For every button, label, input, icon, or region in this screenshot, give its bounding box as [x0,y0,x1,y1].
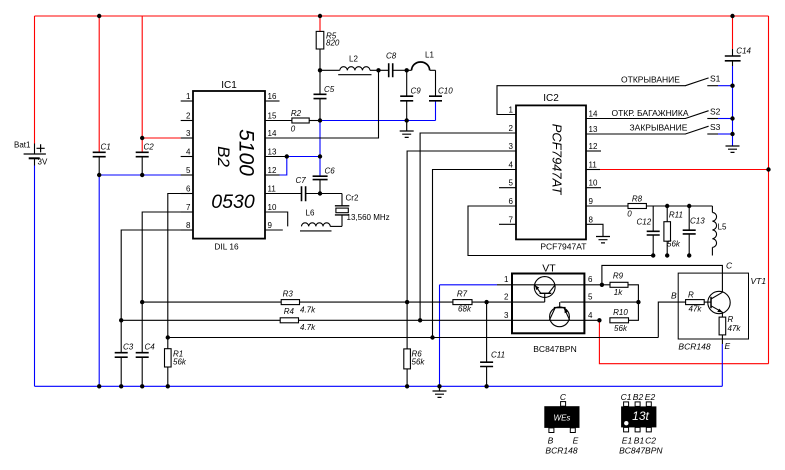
BCR148 outline box [678,273,748,339]
node R8-R11 top [665,204,669,208]
svg-text:C12: C12 [637,218,652,227]
IC2 pin13 row to S3 [586,133,686,135]
svg-text:L2: L2 [349,55,358,64]
battery Bat1 top plate [24,153,46,155]
switch S1 [621,74,721,86]
svg-text:5: 5 [588,293,593,302]
wire VT pin1/pin6 row [497,284,602,286]
capacitor C7 [302,186,306,201]
IC2 pin12 stub [586,150,601,152]
svg-text:1: 1 [509,106,514,115]
svg-text:PCF7947AT: PCF7947AT [550,124,565,196]
wire R1 to VT1 base row [168,337,659,339]
svg-text:WEs: WEs [554,414,571,423]
svg-text:Bat1: Bat1 [14,141,31,150]
svg-text:13: 13 [268,148,277,157]
svg-text:1k: 1k [614,288,623,297]
svg-text:BCR148: BCR148 [678,342,710,352]
svg-text:11: 11 [268,185,277,194]
wire VCC top rail (red) [35,15,769,17]
svg-text:B2: B2 [214,146,233,167]
node rail-C11 [484,384,488,388]
IC1 pin number labels left [186,92,191,230]
wire R5 top lead (red) [319,16,321,31]
svg-text:R3: R3 [283,289,294,298]
node C6-pin11 [318,191,322,195]
svg-text:68k: 68k [458,305,472,314]
wire VT1 emitter to rail (blue) [721,344,723,386]
IC1 pin13 stub [265,156,287,158]
svg-text:BCR148: BCR148 [545,446,577,456]
svg-text:Cr2: Cr2 [346,194,359,203]
IC2 pin11 stub [586,169,600,171]
node R5-VCC [318,14,322,18]
resistor R5 [316,31,340,70]
wire VT pin6 node to VT1 collector [602,265,723,292]
svg-text:L6: L6 [306,209,315,218]
svg-text:4: 4 [186,148,191,157]
svg-text:C9: C9 [411,87,422,96]
node pin13-pin12 [285,154,289,158]
switch S3 [630,122,721,134]
svg-text:10: 10 [589,179,598,188]
node pin13-C6col [318,154,322,158]
svg-text:15: 15 [268,112,277,121]
node R5-L2-C5 [318,68,322,72]
node R9-R10-pin5 [636,300,640,304]
svg-text:47k: 47k [689,305,703,314]
IC2 pin3 wire down to R3 row [407,151,516,302]
IC2 pin2 wire down to R4 row [420,133,516,320]
svg-text:B1: B1 [634,436,645,446]
capacitor C11 [480,302,493,386]
resistor R2 [291,109,320,134]
svg-text:0530: 0530 [211,191,255,213]
svg-text:2: 2 [504,293,509,302]
svg-text:C11: C11 [491,351,505,360]
IC1 pin number labels right [268,92,277,230]
capacitor C6 [313,176,328,193]
switch S2 [611,106,720,118]
node C13 bottom [687,253,691,257]
svg-text:S3: S3 [710,122,721,132]
IC2 pin4 wire down to base row [433,170,517,338]
IC2 pin5 stub [499,187,516,189]
svg-text:16: 16 [268,92,277,101]
IC1 pin7 wire down to C4 [142,212,193,353]
capacitor C8 [389,63,407,77]
IC2 pin1 wire to S1 row [497,86,686,115]
svg-text:IC2: IC2 [543,93,559,104]
IC1 pin8 wire down to C3 [121,230,193,353]
wire switch common column (blue) [732,66,734,146]
node S2 [730,116,734,120]
svg-text:8: 8 [186,221,191,230]
svg-text:56k: 56k [173,358,187,367]
node rail-gnd [437,384,441,388]
wire IC1 pin13 branch (blue) [287,156,320,158]
svg-text:C5: C5 [324,85,335,94]
node IC2pin2-R4 [418,318,422,322]
node C3-R4 [119,318,123,322]
svg-text:13: 13 [589,125,598,134]
svg-text:12: 12 [268,166,277,175]
wire C14 top lead (black) [732,49,734,56]
svg-text:R11: R11 [669,211,683,220]
svg-text:C2: C2 [645,436,656,446]
node C2-pin3 [140,136,144,140]
svg-text:C4: C4 [145,343,156,352]
inductor L2 [320,67,389,75]
node C8-L1-C9 [405,68,409,72]
svg-text:3V: 3V [38,158,48,167]
svg-text:R2: R2 [291,109,302,118]
svg-text:3: 3 [504,311,509,320]
capacitor C13 [683,206,696,256]
svg-text:C1: C1 [621,392,632,402]
svg-text:R9: R9 [613,272,624,281]
node C2-pin5 [140,173,144,177]
wire IC1 pin12 link (blue) [280,157,287,176]
svg-text:12: 12 [589,142,598,151]
capacitor C9 [400,70,413,120]
svg-text:10: 10 [268,203,277,212]
battery Bat1 plus sign [37,144,45,152]
resistor R emitter 47k [719,315,741,344]
svg-text:B: B [671,291,677,301]
svg-text:C2: C2 [144,143,155,152]
wire battery positive lead (black) [34,144,36,155]
wire C10 bottom riser (blue) [435,101,437,121]
node S1 [730,84,734,88]
wire VT1 base riser [658,302,685,337]
node C1-VCC [97,14,101,18]
svg-text:0: 0 [291,125,296,134]
IC2 pin number labels left [509,106,514,225]
svg-text:5: 5 [186,166,191,175]
svg-text:S2: S2 [710,106,721,116]
crystal Cr2 [335,194,349,227]
resistor R base 47k [686,291,711,314]
ground at bottom rail [433,386,447,397]
svg-text:ЗАКРЫВАНИЕ: ЗАКРЫВАНИЕ [630,123,688,133]
svg-text:47k: 47k [728,324,742,333]
svg-text:C1: C1 [101,143,111,152]
resistor R1 [165,349,187,387]
svg-text:2: 2 [186,112,191,121]
wire C6 top column (blue) [319,121,321,177]
node C13 top [687,204,691,208]
resistor R9 [602,272,639,302]
resistor R7 [453,290,472,314]
svg-text:13t: 13t [632,409,649,423]
node R3-R6 [405,300,409,304]
ground at IC2 pin8 [596,237,610,243]
svg-text:7: 7 [509,215,514,224]
wire VT pin1 ground column (blue) [439,285,441,387]
svg-text:BC847BPN: BC847BPN [619,446,663,456]
node L2-C8-pin14 [376,68,380,72]
svg-text:6: 6 [186,185,191,194]
svg-text:9: 9 [268,221,273,230]
capacitor C1 [93,152,106,175]
node R11 bottom [665,253,669,257]
wire ground bottom rail (blue) [35,385,723,387]
resistor R3 [281,289,316,314]
svg-text:6: 6 [509,197,514,206]
capacitor C12 [647,206,660,256]
svg-text:DIL 16: DIL 16 [214,241,239,251]
IC1 pin15 row to R2 [265,120,292,122]
IC2 pin14 row to S2 [586,118,686,120]
node R7-C11 [484,300,488,304]
node rail-R6 [405,384,409,388]
wire S1 right segment [707,85,718,87]
inductor L5 [712,206,716,256]
IC2 pin9 row to R8 [586,205,628,207]
capacitor C3 [115,353,128,387]
svg-text:11: 11 [589,161,598,170]
svg-text:PCF7947AT: PCF7947AT [540,242,586,252]
svg-text:C14: C14 [736,46,751,55]
node S3 [730,132,734,136]
svg-text:1: 1 [186,92,191,101]
wire C14 top lead (red) [732,16,734,49]
resistor R11 [664,206,683,256]
svg-text:4: 4 [588,311,593,320]
capacitor C4 [136,353,149,387]
wire R4 row [121,319,599,321]
svg-text:C13: C13 [690,217,705,226]
svg-text:R4: R4 [284,307,295,316]
node C14-VCC [730,14,734,18]
wire battery negative lead (black) [34,158,36,165]
svg-text:13,560 MHz: 13,560 MHz [347,213,390,222]
resistor R8 [627,195,712,219]
svg-text:R7: R7 [457,290,468,299]
IC1 left pin stubs 1-8 [181,101,193,230]
svg-text:B2: B2 [633,392,644,402]
IC1 pin6 wire down to R1 [168,194,193,349]
svg-text:E2: E2 [645,392,656,402]
svg-text:C3: C3 [123,343,134,352]
wire VT pin4 node to right rail (red) [599,320,768,363]
node IC2pin4-baserow [430,335,434,339]
svg-text:S1: S1 [710,74,721,84]
node C1-pin5 [97,173,101,177]
svg-text:R10: R10 [613,308,628,317]
svg-text:9: 9 [589,197,594,206]
wire R2 output ground row (blue) [320,120,436,122]
svg-text:5100: 5100 [235,129,258,176]
svg-text:L1: L1 [425,51,434,60]
svg-text:BC847BPN: BC847BPN [533,344,576,354]
svg-text:E: E [573,436,579,446]
transistor T2 in VT [549,302,569,327]
node rail-C4 [140,384,144,388]
node VTpin6-R9 [600,283,604,287]
svg-text:6: 6 [588,275,593,284]
ground at switch column [726,146,740,152]
IC1 pin12 stub [265,174,280,176]
svg-text:R8: R8 [632,195,643,204]
ground at C9 bottom [400,121,414,138]
IC2 pin7 stub [499,223,516,225]
node VTpin4-R10 [597,318,601,322]
svg-text:B: B [548,436,554,446]
BC847BPN package drawing [619,392,663,456]
svg-text:ОТКРЫВАНИЕ: ОТКРЫВАНИЕ [621,74,680,84]
node rail-R1 [166,384,170,388]
IC1 pin16 stub [265,100,280,102]
wire R3 row [142,301,545,303]
capacitor C10 [429,70,442,101]
transistor VT1 [708,291,730,317]
IC2 pin number labels right [589,110,598,225]
node C4-R3 [140,300,144,304]
svg-text:14: 14 [589,110,598,119]
IC2 body [516,93,586,252]
wire IC2 pin11 to right rail (red) [600,169,769,171]
svg-text:3: 3 [509,142,514,151]
node C12 bottom [651,253,655,257]
wire VT pin1 row (blue) [440,284,498,286]
IC2 pin10 stub [586,187,601,189]
svg-text:4.7k: 4.7k [300,305,316,314]
svg-text:8: 8 [589,215,594,224]
wire battery negative column (blue) [34,166,36,387]
VT box [512,263,584,355]
svg-text:ОТКР. БАГАЖНИКА: ОТКР. БАГАЖНИКА [611,108,688,118]
IC1 pin11 row [265,193,342,195]
svg-text:C: C [560,392,567,402]
svg-text:C10: C10 [438,87,453,96]
capacitor C2 [136,152,149,175]
svg-text:C8: C8 [386,52,397,61]
wire IC1 pin3 branch (red) [142,137,181,139]
svg-text:4: 4 [509,161,514,170]
wire IC1 pin5 row (blue) [99,174,181,176]
wire VT pin5 row [560,301,638,303]
node C9-gnd [405,118,409,122]
IC1 pin10 wire to L6 [265,212,288,226]
svg-text:C7: C7 [296,176,307,185]
IC1 pin14 wire to L2/C8 junction [265,70,379,138]
svg-text:5: 5 [509,179,514,188]
svg-text:1: 1 [504,275,509,284]
svg-text:56k: 56k [614,324,628,333]
capacitor C5 [314,70,327,120]
capacitor C14 [725,56,741,61]
svg-text:820: 820 [326,38,340,47]
IC2 pin8 wire to ground [586,224,603,236]
resistor R4 [280,307,316,332]
resistor R10 [610,302,639,333]
svg-text:56k: 56k [667,240,681,249]
IC1 pin9 stub [265,229,283,231]
svg-text:2: 2 [509,124,514,133]
wire VCC right edge down (red) [768,16,770,364]
BCR148 package drawing [544,392,579,456]
svg-text:7: 7 [186,203,191,212]
node R2-out [318,118,322,122]
svg-text:L5: L5 [718,223,727,232]
VT pin number labels [504,275,593,320]
wire battery positive drop (red) [34,16,36,144]
wire C1 bottom column (blue) [98,175,100,386]
transistor T1 in VT [534,277,555,303]
node pin11-VCC [766,167,770,171]
svg-text:0: 0 [627,210,632,219]
resistor R6 [404,302,426,386]
wire S2 right segment [707,118,718,120]
IC1 body [193,80,265,251]
IC2 pin6 wire to tank bottom [468,206,653,256]
inductor L1 [407,62,436,70]
svg-text:VT: VT [542,263,556,275]
svg-text:E1: E1 [622,436,633,446]
wire S3 right segment [707,133,718,135]
svg-text:IC1: IC1 [221,80,237,91]
node R1-baserow [166,335,170,339]
node rail-C3 [119,384,123,388]
svg-text:4.7k: 4.7k [300,323,316,332]
node rail-C1col [97,384,101,388]
wire C14 bottom lead (black) [732,61,734,66]
svg-text:56k: 56k [412,358,426,367]
svg-text:E: E [725,341,731,351]
svg-text:VT1: VT1 [751,276,767,286]
svg-text:R: R [688,291,694,300]
wire C1 top column (red) [98,16,100,152]
svg-text:C: C [726,261,733,271]
wire C2 top column (red) [141,16,143,152]
battery Bat1 labels [14,141,48,167]
svg-text:R: R [728,315,734,324]
inductor L6 [300,223,342,231]
svg-text:C6: C6 [325,166,336,175]
battery Bat1 bottom plate [29,157,40,159]
svg-text:3: 3 [186,129,191,138]
svg-text:14: 14 [268,129,277,138]
